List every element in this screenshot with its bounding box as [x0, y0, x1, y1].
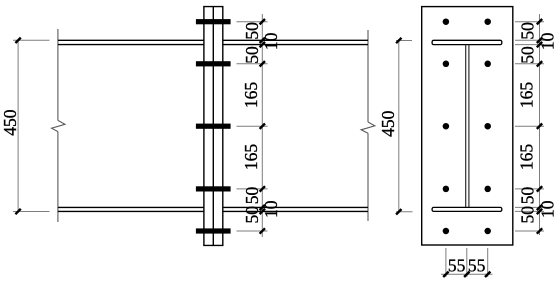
- bolt bar 4: [196, 186, 231, 191]
- splice plate elevation: [203, 7, 223, 246]
- left 450 dimension: [13, 40, 50, 211]
- svg-text:10: 10: [261, 200, 281, 218]
- bolt bar 2: [196, 61, 231, 66]
- left beam break line: [52, 29, 65, 222]
- section view: top flange: [432, 40, 502, 44]
- svg-text:165: 165: [241, 82, 261, 109]
- right beam break line: [361, 30, 375, 221]
- svg-text:10: 10: [537, 200, 557, 218]
- svg-text:10: 10: [261, 32, 281, 50]
- left beam top flange: [58, 40, 204, 44]
- svg-text:50: 50: [242, 187, 262, 205]
- section view: splice plate outline: [422, 7, 513, 245]
- bolt bar 5: [196, 228, 231, 233]
- section view: bolt dots: [443, 18, 491, 234]
- bottom 55/55 dimension: [441, 248, 493, 277]
- middle dimension chain: [237, 14, 268, 237]
- svg-text:55: 55: [448, 256, 466, 276]
- right 450 dimension: [396, 41, 413, 212]
- section view: bottom flange: [432, 207, 502, 211]
- svg-text:50: 50: [517, 22, 537, 40]
- svg-text:450: 450: [0, 109, 20, 136]
- svg-text:50: 50: [242, 206, 262, 224]
- svg-text:50: 50: [517, 187, 537, 205]
- right beam top flange: [223, 40, 368, 44]
- svg-text:50: 50: [517, 46, 537, 64]
- svg-text:165: 165: [516, 144, 536, 171]
- svg-text:50: 50: [517, 206, 537, 224]
- svg-text:165: 165: [516, 82, 536, 109]
- bolt bar 1: [196, 19, 231, 24]
- right beam bottom flange: [223, 207, 368, 211]
- svg-text:450: 450: [378, 110, 398, 137]
- svg-text:10: 10: [537, 32, 557, 50]
- svg-text:55: 55: [468, 256, 486, 276]
- bolt bar 3: [196, 124, 231, 129]
- left beam bottom flange: [58, 207, 204, 211]
- section view: web: [466, 45, 469, 208]
- right dimension chain: [515, 14, 544, 235]
- svg-text:50: 50: [242, 46, 262, 64]
- svg-text:50: 50: [242, 22, 262, 40]
- svg-text:165: 165: [241, 144, 261, 171]
